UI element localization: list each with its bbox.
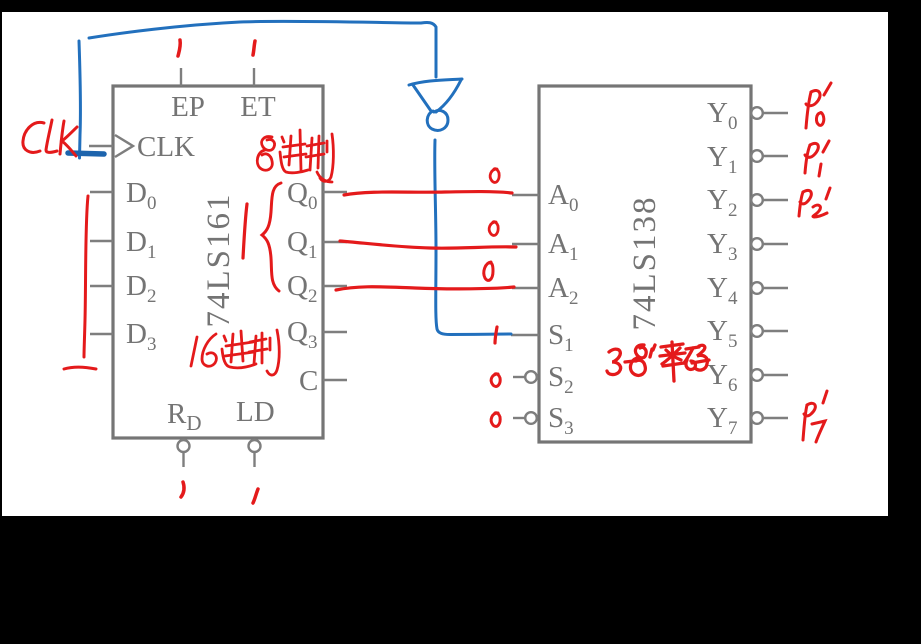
- pin Q0: [287, 177, 347, 214]
- wire blue CLK feedback (top): [89, 21, 436, 77]
- pin S3 (active low): [513, 402, 574, 439]
- pin CLK with clock triangle: [89, 131, 195, 163]
- annotation tick below RD: [181, 482, 184, 497]
- pin Y0: [707, 97, 788, 134]
- pin S1: [511, 319, 574, 356]
- wire red Q0 to A0: [344, 192, 512, 195]
- svg-text:LD: LD: [236, 396, 275, 428]
- pin Y6: [707, 359, 788, 396]
- annotation red brace over Q0-Q2: [262, 183, 281, 291]
- pin D0: [90, 177, 156, 214]
- pin EP: [171, 68, 205, 123]
- annotation red line along D inputs: [64, 196, 96, 369]
- pin Y7: [707, 402, 788, 439]
- pin A2: [512, 272, 578, 309]
- wire blue vertical to CLK pin: [79, 41, 80, 158]
- annotation P0': [806, 83, 831, 128]
- pin Y4: [707, 272, 788, 309]
- annotation 0 at A0: [490, 169, 499, 183]
- annotation 3-8译码 (red): [607, 342, 709, 381]
- pin A1: [512, 228, 578, 265]
- pin D1: [90, 226, 156, 263]
- IC U1 74LS161 body: [113, 86, 323, 438]
- svg-text:EP: EP: [171, 91, 205, 123]
- wire red Q2 to A2: [336, 287, 514, 290]
- annotation CLK (red handwriting): [23, 120, 77, 156]
- annotation 0 at A1: [489, 222, 498, 236]
- pin Q3: [287, 316, 347, 353]
- pin Y1: [707, 141, 788, 178]
- IC U2 74LS138 body: [539, 86, 751, 442]
- annotation 8进制 (red): [257, 130, 333, 182]
- wire blue thick dash at CLK pin: [68, 153, 104, 154]
- svg-text:74LS161: 74LS161: [201, 192, 237, 327]
- pin Q1: [287, 226, 347, 263]
- pin Y2: [707, 184, 788, 221]
- wire red Q1 to A1: [340, 241, 516, 248]
- pin S2 (active low): [513, 361, 574, 398]
- pin A0: [512, 179, 578, 216]
- annotation 0 at S2: [491, 374, 500, 387]
- pin LD: [236, 396, 275, 467]
- pin D2: [90, 270, 156, 307]
- annotation 1 at S1: [495, 327, 497, 343]
- svg-text:CLK: CLK: [137, 131, 195, 163]
- pin Q2: [287, 270, 347, 307]
- pin Y5: [707, 315, 788, 352]
- pin C: [299, 365, 347, 397]
- pin D3: [90, 318, 156, 355]
- annotation P2': [799, 188, 830, 217]
- svg-text:C: C: [299, 365, 318, 397]
- annotation 0 at S3: [491, 413, 500, 427]
- pin ET: [240, 68, 276, 123]
- inverter (hand drawn, blue): [409, 79, 462, 130]
- annotation red 1 beside brace: [243, 204, 247, 258]
- svg-text:ET: ET: [240, 91, 276, 123]
- annotation P7': [803, 391, 827, 442]
- wire blue inverter output to S1: [435, 140, 511, 335]
- annotation tick 1 above EP: [178, 40, 180, 56]
- svg-text:74LS138: 74LS138: [627, 195, 663, 330]
- annotation 16进制 (red): [191, 330, 279, 375]
- pin RD: [167, 398, 202, 467]
- annotation tick below LD: [253, 489, 258, 503]
- annotation 0 at A2: [484, 262, 493, 280]
- annotation tick 1 above ET: [253, 41, 255, 55]
- pin Y3: [707, 228, 788, 265]
- annotation P1': [805, 141, 829, 176]
